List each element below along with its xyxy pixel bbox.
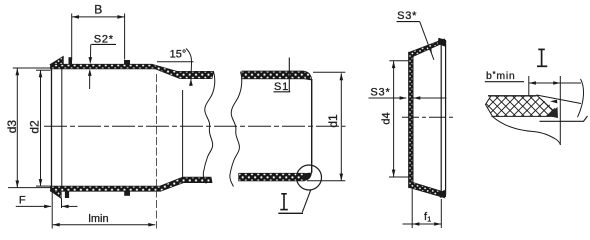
- detail block left break: [486, 96, 493, 117]
- detail chamfer line steep: [537, 95, 558, 115]
- dimension d2 extension lines: [36, 69, 51, 71]
- detail chamfer arrowhead: [550, 100, 557, 104]
- dimension d4 extension lines: [389, 60, 409, 62]
- svg-text:S3*: S3*: [370, 86, 390, 98]
- cap left wall: [409, 53, 413, 188]
- b*min dimension line: [529, 82, 581, 84]
- label I small: [280, 194, 288, 210]
- socket top wall: [51, 64, 214, 78]
- socket mouth face: [51, 66, 53, 191]
- detail bead triangle: [546, 107, 558, 118]
- dimension d2 line: [40, 70, 42, 186]
- top bead 1: [69, 57, 73, 64]
- dimension B extension lines: [71, 14, 73, 61]
- cap corner blobs: [438, 38, 447, 47]
- socket mouth bottom lip: [51, 191, 62, 198]
- centerline of pipe: [44, 125, 346, 127]
- S2 leader arrows: [90, 44, 92, 58]
- svg-text:b*min: b*min: [486, 70, 515, 82]
- svg-text:d4: d4: [381, 112, 393, 124]
- detail inner line: [540, 116, 588, 121]
- svg-text:d1: d1: [326, 114, 340, 128]
- right pipe top wall: [242, 71, 312, 80]
- dimension d3 line: [16, 68, 18, 187]
- detail chamfer line shallow: [537, 95, 582, 104]
- right pipe break line: [230, 72, 242, 187]
- socket bead inner edge: [61, 69, 63, 186]
- cap bottom wall: [409, 183, 445, 198]
- svg-text:15°: 15°: [170, 49, 187, 61]
- dimension d1 extension lines: [313, 71, 345, 73]
- top bead 2: [124, 60, 130, 65]
- left pipe break line: [203, 72, 214, 184]
- pipe end bottom corner: [304, 173, 312, 182]
- svg-text:S2*: S2*: [94, 34, 114, 46]
- svg-text:d3: d3: [5, 120, 19, 134]
- cap rim inner: [440, 44, 442, 192]
- bottom bead 2: [124, 191, 130, 196]
- detail leader: [302, 190, 310, 212]
- detail block bottom edge: [492, 115, 552, 117]
- lmin left extension: [51, 191, 53, 228]
- S1 leader: [288, 58, 290, 92]
- svg-text:B: B: [94, 3, 102, 17]
- S3 left dimension: [369, 97, 407, 99]
- svg-text:F: F: [19, 195, 26, 207]
- taper inner edge: [182, 90, 184, 177]
- 15deg leader: [186, 49, 192, 87]
- detail circle I: [297, 165, 322, 190]
- cap rim outer: [445, 41, 447, 195]
- right pipe bottom wall: [239, 173, 305, 181]
- F right extension: [61, 198, 63, 208]
- dimension f1 extension lines: [411, 189, 413, 228]
- dimension B line: [72, 16, 125, 18]
- detail bottom break curve: [493, 117, 561, 145]
- detail block top edge: [488, 95, 537, 97]
- svg-text:S3*: S3*: [397, 10, 417, 22]
- dimension lmin line: [53, 224, 156, 226]
- svg-text:d2: d2: [28, 120, 42, 134]
- socket bottom wall: [51, 177, 213, 191]
- dimension d3 extension lines: [13, 67, 51, 69]
- bottom bead 1: [65, 191, 69, 198]
- lmin right extension: [156, 74, 158, 229]
- S3 top leader: [420, 22, 434, 60]
- cap centerline: [402, 116, 454, 118]
- cap top wall: [409, 39, 446, 57]
- dimension d1 line: [340, 73, 342, 180]
- dimension f1 line: [403, 223, 442, 225]
- svg-text:lmin: lmin: [88, 213, 108, 225]
- pipe end face: [311, 79, 313, 173]
- detail block crosshatched wall: [486, 96, 559, 117]
- b*min extension lines: [528, 76, 530, 98]
- socket mouth top lip: [51, 56, 64, 64]
- 15deg reference line: [157, 61, 194, 63]
- dimension d4 line: [393, 61, 395, 177]
- detail view I label: [537, 49, 547, 66]
- detail right break arc: [578, 79, 584, 117]
